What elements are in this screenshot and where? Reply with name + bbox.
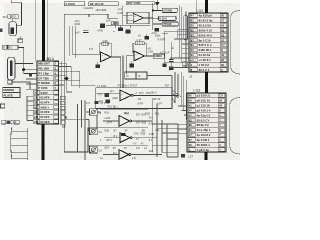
svg-text:MB OUT: MB OUT bbox=[38, 62, 50, 66]
ground blob D bbox=[121, 133, 125, 136]
svg-text:PLATE: PLATE bbox=[3, 93, 12, 97]
wire A in bbox=[72, 54, 100, 56]
junction tick2 bbox=[130, 25, 132, 28]
icon box E bbox=[90, 128, 98, 135]
svg-text:1uF: 1uF bbox=[75, 30, 80, 34]
svg-text:111: 111 bbox=[34, 115, 39, 119]
icon box F bbox=[90, 146, 98, 153]
svg-text:83A2 44 0: 83A2 44 0 bbox=[199, 33, 213, 37]
svg-text:0?: 0? bbox=[221, 19, 224, 23]
wire long vertical bbox=[64, 14, 95, 152]
label pair box bbox=[125, 72, 147, 79]
svg-text:uR?1: uR?1 bbox=[106, 139, 112, 142]
svg-text:uAd8: uAd8 bbox=[112, 97, 118, 100]
svg-text:AB6 1: AB6 1 bbox=[40, 105, 49, 109]
wire thick bus G2 bbox=[205, 0, 208, 13]
svg-text:CA: CA bbox=[99, 150, 103, 153]
svg-text:R1?: R1? bbox=[136, 114, 141, 117]
op-amp F bbox=[119, 150, 129, 160]
svg-text:CA: CA bbox=[219, 94, 223, 98]
IC U-G2 bbox=[189, 13, 228, 72]
label UTUN1 bbox=[162, 8, 177, 12]
ground blob B2 bbox=[129, 61, 134, 68]
svg-text:01UF3: 01UF3 bbox=[40, 115, 49, 119]
wire junction to G1 bbox=[24, 70, 37, 74]
wire row D top bbox=[100, 109, 148, 111]
svg-text:10K: 10K bbox=[106, 19, 111, 23]
wire outer verticals bbox=[66, 100, 86, 152]
capacitor C2 bbox=[106, 19, 118, 34]
ground blob3 bbox=[153, 28, 168, 33]
wire G1 row8 left bbox=[12, 82, 30, 89]
op-amp C bbox=[120, 90, 131, 101]
svg-text:0?: 0? bbox=[189, 138, 192, 142]
connector ellipse left G2 bbox=[183, 15, 187, 40]
svg-text:t2: t2 bbox=[190, 75, 193, 79]
svg-text:0p 2.2R 4: 0p 2.2R 4 bbox=[197, 138, 210, 142]
svg-text:J?1: J?1 bbox=[86, 102, 91, 105]
svg-text:1 G3: 1 G3 bbox=[193, 89, 200, 93]
wire A out bbox=[111, 56, 123, 88]
small box TP1 bbox=[18, 39, 23, 43]
blob mid2 bbox=[125, 29, 130, 33]
svg-text:B: B bbox=[3, 46, 5, 50]
wire G1 pins right bbox=[59, 63, 80, 85]
wire F out bbox=[131, 154, 162, 156]
op-amp E bbox=[120, 133, 130, 143]
wire bundle verticals bbox=[175, 72, 186, 120]
wire bundle rungs bbox=[152, 124, 178, 157]
connector ladder bottom-left bbox=[11, 128, 28, 161]
svg-text:RMODE: RMODE bbox=[3, 88, 14, 92]
wire top-left bend bbox=[11, 0, 21, 25]
svg-text:-: - bbox=[134, 19, 135, 22]
label PLATE bbox=[3, 93, 20, 98]
junction dot bbox=[152, 9, 154, 11]
label row B1 F2 bbox=[2, 45, 18, 49]
svg-text:10M10: 10M10 bbox=[154, 54, 162, 58]
svg-text:B1R: B1R bbox=[105, 147, 110, 150]
svg-text:+C1: +C1 bbox=[117, 7, 122, 11]
diode D1 bbox=[97, 24, 105, 33]
svg-text:R1A: R1A bbox=[125, 112, 130, 115]
svg-text:TTC30: TTC30 bbox=[163, 22, 172, 26]
pin box left G2 bbox=[183, 62, 187, 66]
connector outline right G2 bbox=[231, 11, 240, 75]
label 0 0 bbox=[158, 16, 176, 20]
svg-text:01UF5: 01UF5 bbox=[40, 120, 49, 124]
wire diagonals bbox=[172, 90, 181, 103]
wire thin bus right bbox=[47, 0, 49, 61]
op-amp U1 bbox=[133, 13, 143, 22]
wire D out bbox=[132, 120, 153, 122]
svg-text:RY 1Np: RY 1Np bbox=[38, 71, 49, 75]
wire thick bus lower bbox=[41, 124, 44, 160]
svg-text:+C? 1uF: +C? 1uF bbox=[160, 51, 170, 54]
svg-text:112: 112 bbox=[34, 120, 39, 124]
svg-text:30 300A 1: 30 300A 1 bbox=[197, 143, 211, 147]
svg-text:4p 810 p0: 4p 810 p0 bbox=[199, 14, 213, 18]
wire thick G2 bottom bbox=[205, 72, 208, 81]
icon box D bbox=[90, 109, 98, 116]
resistor R3 fb bbox=[102, 40, 108, 46]
svg-text:R11: R11 bbox=[149, 117, 154, 120]
wire three verticals bbox=[69, 26, 75, 58]
svg-text:10.: 10. bbox=[138, 33, 142, 37]
wire diamond down bbox=[67, 81, 96, 92]
svg-text:0 10 0: 0 10 0 bbox=[159, 17, 167, 21]
svg-text:R2B: R2B bbox=[141, 133, 146, 136]
svg-text:10k 0: 10k 0 bbox=[151, 92, 158, 95]
svg-text:#?: #? bbox=[189, 108, 192, 112]
wire G2 left entries bbox=[164, 30, 189, 68]
ground blob1 bbox=[118, 25, 123, 31]
box small left bbox=[8, 80, 12, 84]
svg-text:2 15UU: 2 15UU bbox=[65, 2, 74, 6]
svg-text:P MODE: P MODE bbox=[38, 81, 50, 85]
wire verticals to G2 bbox=[179, 6, 186, 68]
svg-text:8p 0 C10: 8p 0 C10 bbox=[199, 38, 211, 42]
wire thick bus upper bbox=[42, 0, 45, 61]
svg-text:C?: C? bbox=[221, 43, 225, 47]
label row W1 bbox=[3, 15, 19, 19]
svg-text:p1 310 18: p1 310 18 bbox=[197, 104, 210, 108]
capacitor C3 bbox=[169, 42, 174, 70]
IC U-G1 bbox=[33, 61, 58, 124]
svg-text:-: - bbox=[135, 58, 136, 61]
label RMODE bbox=[3, 87, 20, 92]
wire fb loop B2 bbox=[133, 43, 146, 56]
wire from F2 bbox=[18, 47, 24, 69]
box mid channel bbox=[96, 88, 172, 109]
svg-text:1 p8 0 2p: 1 p8 0 2p bbox=[197, 148, 210, 152]
svg-text:RB 1N8: RB 1N8 bbox=[38, 67, 49, 71]
svg-text:R?C: R?C bbox=[139, 92, 144, 95]
svg-text:4 B: 4 B bbox=[132, 157, 136, 160]
wire cap input bbox=[122, 6, 124, 26]
svg-text:31 p 40p 1: 31 p 40p 1 bbox=[197, 128, 211, 132]
svg-text:R11: R11 bbox=[155, 129, 160, 132]
svg-text:1.2M: 1.2M bbox=[147, 51, 153, 54]
junction diamond bbox=[64, 76, 68, 80]
junction mark bbox=[29, 74, 32, 77]
svg-text:4?1: 4?1 bbox=[89, 47, 94, 51]
svg-text:4180 08 1: 4180 08 1 bbox=[199, 48, 212, 52]
wire label bus bbox=[153, 3, 162, 30]
svg-text:OT TB6: OT TB6 bbox=[38, 76, 49, 80]
svg-text:1 62 2.2: 1 62 2.2 bbox=[199, 63, 210, 67]
wire enclosure top mid bbox=[147, 76, 172, 88]
wire C in bbox=[96, 92, 120, 94]
wire U1 in bbox=[123, 16, 133, 21]
connector J2 electrolytic bbox=[7, 57, 15, 80]
svg-text:-: - bbox=[121, 97, 122, 100]
svg-text:p0 01C 10: p0 01C 10 bbox=[197, 99, 211, 103]
svg-text:8?: 8? bbox=[191, 38, 194, 42]
component near G2 bbox=[162, 56, 171, 71]
svg-text:uA48: uA48 bbox=[105, 117, 111, 120]
svg-text:1M: 1M bbox=[138, 98, 141, 101]
svg-text:UR1.89Z: UR1.89Z bbox=[96, 8, 107, 12]
wire G1 left pins bbox=[26, 79, 37, 121]
svg-text:UTUN1: UTUN1 bbox=[163, 9, 172, 13]
diode D2 bbox=[155, 0, 160, 10]
svg-text:0?: 0? bbox=[221, 38, 224, 42]
wire channel rail bbox=[84, 101, 86, 161]
enclosure corner right bbox=[165, 31, 189, 56]
resistor R4 fb bbox=[135, 42, 144, 45]
svg-text:20 2.2 0A: 20 2.2 0A bbox=[199, 24, 212, 28]
wire C out bbox=[133, 90, 178, 95]
wire mid horizontal bbox=[106, 24, 150, 26]
wire connector to G1 bbox=[15, 62, 33, 64]
svg-text:W1: W1 bbox=[3, 15, 8, 19]
edge mark left2 bbox=[1, 104, 5, 108]
wire thin bus left bbox=[35, 0, 37, 61]
svg-text:100K: 100K bbox=[74, 22, 80, 26]
wire down from pins bbox=[61, 61, 79, 124]
svg-text:R1B: R1B bbox=[105, 129, 110, 132]
svg-text:t 1?: t 1? bbox=[188, 154, 193, 158]
resistor R2 chain bbox=[111, 22, 118, 25]
svg-text:01UF6: 01UF6 bbox=[40, 96, 49, 100]
op-amp A bbox=[100, 52, 110, 62]
label RST TUR0 bbox=[126, 1, 154, 5]
svg-text:4?: 4? bbox=[189, 133, 192, 137]
wire bundle to G3 bbox=[178, 106, 187, 157]
svg-text:R18: R18 bbox=[105, 112, 110, 115]
wire feed vertical bbox=[88, 116, 148, 146]
svg-text:+?1: +?1 bbox=[98, 93, 103, 96]
component blob m2 bbox=[106, 99, 110, 103]
svg-text:uF??: uF?? bbox=[107, 122, 113, 125]
connector P1 bbox=[9, 22, 16, 36]
svg-text:4p 01p C1: 4p 01p C1 bbox=[197, 113, 211, 117]
wire B2 in bbox=[126, 56, 134, 75]
svg-text:BF 15U 4F: BF 15U 4F bbox=[90, 2, 104, 6]
junction tick bbox=[88, 14, 90, 17]
svg-text:4?: 4? bbox=[191, 14, 194, 18]
svg-text:01 42 A2: 01 42 A2 bbox=[199, 53, 211, 57]
svg-text:80 2 A 2: 80 2 A 2 bbox=[199, 68, 210, 72]
wire bundle mid verticals bbox=[152, 100, 167, 157]
svg-text:110: 110 bbox=[34, 110, 39, 114]
ground blob A bbox=[96, 62, 101, 68]
svg-text:41B: 41B bbox=[149, 150, 154, 153]
svg-text:R 8?R: R 8?R bbox=[158, 38, 165, 41]
op-amp D bbox=[119, 116, 129, 127]
wire thin pre-G2 bbox=[196, 0, 198, 13]
wire thick G3 bottom bbox=[204, 152, 207, 160]
wire E out bbox=[132, 137, 157, 139]
wire thick bus G2-G3 bbox=[205, 80, 208, 93]
component blob m1 bbox=[105, 93, 109, 97]
svg-text:RST TUR0: RST TUR0 bbox=[127, 1, 141, 5]
svg-text:88 8p CV: 88 8p CV bbox=[197, 123, 209, 127]
svg-text:81P 2 C p: 81P 2 C p bbox=[199, 43, 212, 47]
svg-text:83 8.2 CY: 83 8.2 CY bbox=[197, 118, 210, 122]
edge mark left1 bbox=[0, 29, 2, 33]
svg-text:4p 103 8 2: 4p 103 8 2 bbox=[197, 133, 211, 137]
svg-text:R3?: R3? bbox=[165, 84, 170, 87]
wire B2 out bbox=[144, 55, 153, 57]
ground blob2 bbox=[145, 34, 149, 40]
marks left G3 bottom bbox=[181, 154, 185, 157]
svg-text:1?M: 1?M bbox=[134, 133, 139, 136]
capacitor C1 bbox=[75, 30, 89, 34]
wire loop top bbox=[64, 14, 118, 18]
op-amp B2 bbox=[134, 51, 144, 61]
svg-text:P UOK: P UOK bbox=[38, 86, 48, 90]
connector outline right G3 bbox=[230, 98, 240, 155]
svg-text:UALAR1: UALAR1 bbox=[84, 7, 94, 10]
label BF 15U bbox=[89, 2, 118, 6]
svg-text:B1B: B1B bbox=[142, 121, 147, 124]
svg-text:B1F: B1F bbox=[142, 114, 147, 117]
svg-text:1A: 1A bbox=[100, 157, 103, 160]
svg-text:p2 410 1 4: p2 410 1 4 bbox=[197, 108, 211, 112]
svg-text:14 R?: 14 R? bbox=[137, 103, 144, 106]
svg-text:01UF4: 01UF4 bbox=[40, 101, 49, 105]
label row RY bbox=[2, 120, 20, 124]
wire fb loop A bbox=[99, 44, 112, 57]
svg-text:2.2M: 2.2M bbox=[117, 11, 123, 15]
svg-text:B1?: B1? bbox=[114, 106, 119, 109]
svg-text:41?: 41? bbox=[136, 147, 141, 150]
wire channel feeds bbox=[86, 112, 120, 155]
svg-text:ED: ED bbox=[12, 15, 16, 19]
svg-text:STAT: STAT bbox=[40, 91, 48, 95]
svg-text:4?: 4? bbox=[189, 113, 192, 117]
svg-text:01UF2: 01UF2 bbox=[40, 110, 49, 114]
pin boxes outer G1 bbox=[60, 96, 65, 124]
svg-text:A700: A700 bbox=[97, 29, 104, 33]
op-amp U1 box bbox=[127, 12, 149, 24]
svg-text:p1 010 U1: p1 010 U1 bbox=[197, 94, 211, 98]
svg-text:8 P: 8 P bbox=[149, 123, 153, 126]
svg-text:R2D 44: R2D 44 bbox=[152, 98, 161, 101]
wire U1 out bbox=[143, 17, 152, 19]
svg-text:R? 100k C R R1?: R? 100k C R R1? bbox=[118, 84, 138, 87]
svg-text:4.8 P: 4.8 P bbox=[157, 103, 163, 106]
svg-text:R11: R11 bbox=[155, 112, 160, 115]
IC U-G3 bbox=[187, 93, 226, 152]
svg-text:+1 92 8 1: +1 92 8 1 bbox=[199, 58, 212, 62]
svg-text:-: - bbox=[102, 59, 103, 62]
svg-text:4 PB: 4 PB bbox=[149, 133, 155, 136]
label TTC30 bbox=[162, 22, 178, 26]
junction node bbox=[22, 68, 25, 71]
svg-text:1 G2: 1 G2 bbox=[196, 9, 203, 13]
svg-text:250k: 250k bbox=[155, 33, 161, 37]
svg-text:81 81.0 0p: 81 81.0 0p bbox=[199, 19, 213, 23]
svg-text:82A2 4 10: 82A2 4 10 bbox=[199, 28, 213, 32]
label 2 15UU bbox=[64, 2, 84, 6]
label 10M10 bbox=[153, 54, 164, 58]
svg-text:R1?: R1? bbox=[136, 121, 141, 124]
svg-text:F2: F2 bbox=[9, 46, 13, 50]
